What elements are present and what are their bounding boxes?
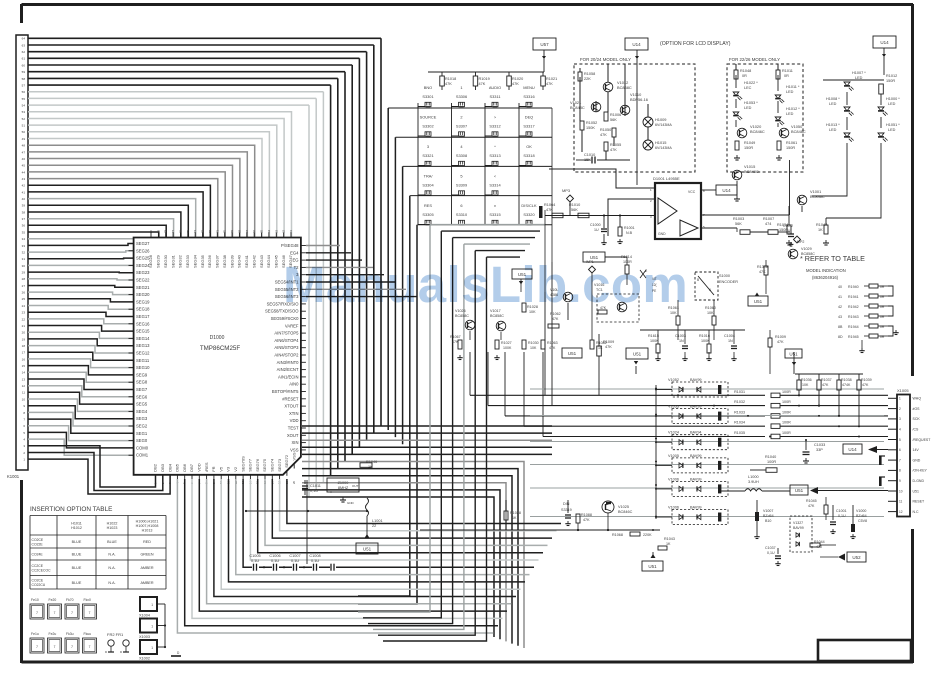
svg-text:H1022 *: H1022 * <box>744 81 758 85</box>
svg-text:5: 5 <box>460 174 462 179</box>
svg-text:H1012 *: H1012 * <box>786 107 800 111</box>
svg-text:13: 13 <box>22 377 26 381</box>
svg-text:BLUE: BLUE <box>72 540 82 544</box>
svg-text:0,1U: 0,1U <box>291 559 299 563</box>
svg-text:V1327: V1327 <box>793 521 803 525</box>
svg-text:R1009: R1009 <box>603 340 614 344</box>
svg-text:R1088: R1088 <box>581 513 592 517</box>
svg-text:H1000 *: H1000 * <box>886 97 900 101</box>
svg-text:7: 7 <box>71 645 73 649</box>
svg-text:VCC: VCC <box>688 190 696 194</box>
svg-text:R1945: R1945 <box>848 335 859 339</box>
svg-text:X1004: X1004 <box>139 614 150 618</box>
svg-text:LED: LED <box>855 76 863 80</box>
svg-text:11: 11 <box>22 391 25 395</box>
svg-text:R1009: R1009 <box>775 335 786 339</box>
svg-text:SEG3: SEG3 <box>136 416 148 421</box>
svg-text:100R: 100R <box>767 460 776 464</box>
svg-text:R1061: R1061 <box>786 141 797 145</box>
svg-text:19: 19 <box>22 337 26 341</box>
svg-text:SEG29: SEG29 <box>156 254 161 268</box>
svg-text:SEG73: SEG73 <box>277 458 282 472</box>
svg-text:74: 74 <box>193 229 197 233</box>
svg-text:S3320: S3320 <box>523 212 535 217</box>
svg-text:47K: 47K <box>445 82 452 86</box>
svg-text:H1023: H1023 <box>107 526 118 530</box>
svg-text:1U: 1U <box>786 229 791 233</box>
svg-text:SEG31: SEG31 <box>170 254 175 268</box>
svg-text:10: 10 <box>899 489 903 493</box>
svg-text:H1011 *: H1011 * <box>786 85 800 89</box>
svg-text:20: 20 <box>22 331 26 335</box>
svg-text:X1002: X1002 <box>139 657 150 661</box>
svg-text:1: 1 <box>151 603 153 607</box>
svg-text:SEG10: SEG10 <box>136 365 150 370</box>
svg-text:SCK: SCK <box>913 417 921 421</box>
svg-text:SEG76: SEG76 <box>255 458 260 472</box>
svg-text:R1006: R1006 <box>610 113 621 117</box>
svg-text:10K: 10K <box>530 346 537 350</box>
svg-text:/RES: /RES <box>204 462 209 472</box>
svg-text:BZd64: BZd64 <box>856 514 867 518</box>
svg-text:BLUE: BLUE <box>72 581 82 585</box>
svg-text:RES: RES <box>424 203 432 208</box>
svg-text:R1049: R1049 <box>744 141 755 145</box>
svg-text:SEG13: SEG13 <box>136 343 150 348</box>
svg-text:BDP56-16: BDP56-16 <box>630 97 648 102</box>
svg-text:76: 76 <box>179 229 183 233</box>
svg-text:Fe20: Fe20 <box>49 598 57 602</box>
svg-text:S3321: S3321 <box>422 153 433 158</box>
svg-text:VAREF: VAREF <box>285 323 299 328</box>
svg-text:64: 64 <box>267 229 271 233</box>
svg-text:BNO: BNO <box>424 85 432 90</box>
svg-text:AMBER: AMBER <box>140 581 153 585</box>
svg-text:Fe1u: Fe1u <box>31 632 39 636</box>
svg-text:20: 20 <box>292 480 296 484</box>
svg-text:C1011: C1011 <box>310 484 321 488</box>
svg-text:8B: 8B <box>838 325 843 329</box>
svg-text:25: 25 <box>22 297 26 301</box>
svg-text:(8636204916): (8636204916) <box>812 275 839 280</box>
svg-text:SEG33: SEG33 <box>185 254 190 268</box>
svg-text:CO2CE: CO2CE <box>32 579 44 583</box>
svg-text:U51: U51 <box>795 488 804 493</box>
svg-text:V3: V3 <box>226 466 231 472</box>
svg-text:R1016: R1016 <box>699 334 710 338</box>
svg-text:150R: 150R <box>744 146 753 150</box>
svg-text:SEG18: SEG18 <box>136 307 150 312</box>
svg-text:/REQUEST: /REQUEST <box>913 438 932 442</box>
svg-text:GREEN: GREEN <box>140 553 153 557</box>
svg-text:SEG77: SEG77 <box>248 458 253 472</box>
svg-text:TEST: TEST <box>288 426 299 431</box>
svg-text:1: 1 <box>899 397 901 401</box>
svg-text:C1037: C1037 <box>765 546 776 550</box>
svg-text:CO2CE: CO2CE <box>32 538 44 542</box>
svg-text:R1035: R1035 <box>734 431 745 435</box>
svg-text:Fe10: Fe10 <box>31 598 39 602</box>
svg-text:GND: GND <box>913 458 921 462</box>
svg-text:(OPTION FOR LCD DISPLAY): (OPTION FOR LCD DISPLAY) <box>660 41 731 47</box>
svg-text:Fkx0: Fkx0 <box>84 598 91 602</box>
svg-text:TMP86CM25F: TMP86CM25F <box>200 345 240 352</box>
svg-text:7: 7 <box>36 645 38 649</box>
svg-text:62: 62 <box>22 50 26 54</box>
svg-text:S3301: S3301 <box>422 94 433 99</box>
svg-text:U14: U14 <box>848 447 857 452</box>
svg-text:47K: 47K <box>610 148 617 152</box>
svg-text:16: 16 <box>22 357 26 361</box>
svg-text:^: ^ <box>494 144 496 149</box>
svg-text:11: 11 <box>899 500 903 504</box>
svg-text:SEG23: SEG23 <box>136 270 150 275</box>
svg-text:SEG38: SEG38 <box>222 254 227 268</box>
svg-text:S3317: S3317 <box>523 124 534 129</box>
svg-text:FR: FR <box>211 466 216 471</box>
svg-text:23: 23 <box>22 311 26 315</box>
svg-text:70: 70 <box>223 229 227 233</box>
svg-text:39: 39 <box>22 204 26 208</box>
svg-text:AIN6/STOP4: AIN6/STOP4 <box>274 338 299 343</box>
svg-text:61: 61 <box>22 57 26 61</box>
svg-text:GND: GND <box>347 501 355 505</box>
svg-text:#OS: #OS <box>913 407 921 411</box>
svg-text:80: 80 <box>149 229 153 233</box>
svg-text:#RESET: #RESET <box>282 396 299 401</box>
svg-text:SEG42: SEG42 <box>251 254 256 268</box>
svg-text:SEG14: SEG14 <box>136 336 150 341</box>
svg-text:ENCODER: ENCODER <box>719 280 738 284</box>
svg-text:47K: 47K <box>479 82 486 86</box>
svg-text:22: 22 <box>372 524 376 528</box>
svg-text:8: 8 <box>899 469 901 473</box>
svg-text:73: 73 <box>201 229 205 233</box>
svg-text:47K: 47K <box>605 345 612 349</box>
svg-text:N.A.: N.A. <box>108 566 115 570</box>
svg-text:MP3: MP3 <box>562 188 570 193</box>
svg-text:S3316: S3316 <box>523 94 534 99</box>
svg-text:14V: 14V <box>913 448 920 452</box>
svg-text:R1940: R1940 <box>848 285 859 289</box>
svg-text:47K: 47K <box>822 383 829 387</box>
svg-text:VDD: VDD <box>290 418 299 423</box>
svg-text:4: 4 <box>899 428 901 432</box>
svg-text:22K: 22K <box>584 77 591 81</box>
svg-text:BAV99: BAV99 <box>690 506 702 510</box>
svg-text:1K: 1K <box>512 516 517 520</box>
svg-text:1K: 1K <box>818 228 823 232</box>
svg-text:R1615: R1615 <box>648 334 659 338</box>
svg-text:U51: U51 <box>363 546 372 551</box>
svg-text:SEG16: SEG16 <box>136 321 150 326</box>
svg-text:61: 61 <box>289 229 293 233</box>
svg-text:S3305: S3305 <box>422 212 433 217</box>
svg-text:AMBER: AMBER <box>140 566 153 570</box>
svg-text:0,1U: 0,1U <box>251 559 259 563</box>
svg-text:72: 72 <box>208 229 212 233</box>
svg-text:U14: U14 <box>632 42 641 47</box>
svg-text:66: 66 <box>252 229 256 233</box>
svg-text:R1011: R1011 <box>782 69 793 73</box>
svg-text:BLUE: BLUE <box>72 553 82 557</box>
svg-text:V1000: V1000 <box>856 509 866 513</box>
svg-text:TRA/: TRA/ <box>424 174 434 179</box>
svg-text:S3315: S3315 <box>489 212 500 217</box>
svg-text:R1944: R1944 <box>848 325 859 329</box>
svg-text:R1048: R1048 <box>740 69 751 73</box>
svg-text:45: 45 <box>22 164 26 168</box>
svg-text:R1043: R1043 <box>664 537 675 541</box>
svg-text:BZd64: BZd64 <box>763 514 774 518</box>
svg-text:47K: 47K <box>759 270 766 274</box>
svg-text:COM1: COM1 <box>136 453 149 458</box>
svg-text:SOURCE: SOURCE <box>420 115 437 120</box>
svg-text:P/SEG48: P/SEG48 <box>281 243 299 248</box>
svg-text:12: 12 <box>22 384 26 388</box>
svg-text:VSS: VSS <box>291 452 296 460</box>
svg-text:DIN: DIN <box>563 502 570 506</box>
svg-text:AIN2/ECNT: AIN2/ECNT <box>277 367 299 372</box>
svg-text:LED: LED <box>888 102 896 106</box>
svg-text:BAV99: BAV99 <box>690 454 702 458</box>
svg-text:SEG35: SEG35 <box>200 254 205 268</box>
svg-text:SEG43: SEG43 <box>259 254 264 268</box>
svg-text:BSTOP/#INT5: BSTOP/#INT5 <box>272 389 299 394</box>
svg-text:LED: LED <box>786 90 794 94</box>
svg-text:* REFER TO TABLE: * REFER TO TABLE <box>800 254 865 263</box>
svg-text:75: 75 <box>186 229 190 233</box>
svg-text:DB5: DB5 <box>175 463 180 472</box>
svg-text:v: v <box>494 203 496 208</box>
svg-text:77: 77 <box>171 229 175 233</box>
svg-text:47K: 47K <box>512 82 519 86</box>
svg-text:56K: 56K <box>610 118 617 122</box>
svg-text:N.A.: N.A. <box>108 581 115 585</box>
svg-text:SEG17: SEG17 <box>136 314 150 319</box>
svg-text:R1055: R1055 <box>610 143 621 147</box>
svg-text:17: 17 <box>22 351 26 355</box>
svg-text:100R: 100R <box>782 410 791 414</box>
svg-text:DB6: DB6 <box>182 463 187 472</box>
svg-text:S3302: S3302 <box>422 124 433 129</box>
svg-text:29: 29 <box>22 271 26 275</box>
svg-text:AIN1/ECIN: AIN1/ECIN <box>278 374 298 379</box>
svg-text:47K: 47K <box>862 383 869 387</box>
svg-text:R1040: R1040 <box>765 455 776 459</box>
svg-text:D1000: D1000 <box>210 335 225 341</box>
svg-text:C1033: C1033 <box>814 443 825 447</box>
svg-text:1N: 1N <box>679 339 684 343</box>
svg-text:BC858C: BC858C <box>455 314 469 318</box>
svg-text:R1031: R1031 <box>734 390 745 394</box>
svg-text:Fk70: Fk70 <box>66 598 74 602</box>
svg-text:R1019: R1019 <box>479 77 490 81</box>
svg-text:BC848C: BC848C <box>791 129 806 134</box>
svg-text:5: 5 <box>899 438 901 442</box>
svg-text:X1003: X1003 <box>139 635 150 639</box>
svg-text:SEG6: SEG6 <box>136 394 148 399</box>
svg-text:K1001: K1001 <box>7 474 20 479</box>
svg-text:47K: 47K <box>549 346 556 350</box>
svg-text:R1050: R1050 <box>600 128 611 132</box>
svg-text:100K: 100K <box>503 346 512 350</box>
svg-text:BC846C: BC846C <box>618 510 633 514</box>
svg-text:H1007 *: H1007 * <box>852 71 866 75</box>
svg-text:6V/143MA: 6V/143MA <box>655 146 672 150</box>
svg-text:GND: GND <box>658 232 666 236</box>
svg-text:V2: V2 <box>233 466 238 472</box>
svg-text:SEG0: SEG0 <box>136 438 148 443</box>
svg-text:56: 56 <box>22 90 26 94</box>
svg-text:RED: RED <box>143 540 151 544</box>
svg-text:H1011: H1011 <box>71 522 82 526</box>
svg-text:10K: 10K <box>707 311 714 315</box>
svg-text:1: 1 <box>151 625 153 629</box>
svg-text:XOUT: XOUT <box>287 433 299 438</box>
svg-text:7: 7 <box>89 611 91 615</box>
svg-text:FR2 FR1: FR2 FR1 <box>107 632 124 637</box>
svg-text:S3319: S3319 <box>561 508 572 512</box>
svg-text:1: 1 <box>460 85 462 90</box>
svg-text:57: 57 <box>22 84 26 88</box>
svg-text:56K: 56K <box>735 222 742 226</box>
svg-text:XTOUT: XTOUT <box>284 404 299 409</box>
svg-text:LED: LED <box>888 128 896 132</box>
svg-text:SEG21: SEG21 <box>136 285 150 290</box>
svg-text:BC848C: BC848C <box>570 105 585 110</box>
svg-text:R1067: R1067 <box>450 335 461 339</box>
svg-text:SEG75: SEG75 <box>262 458 267 472</box>
svg-text:47K: 47K <box>546 82 553 86</box>
svg-text:DB3: DB3 <box>160 463 165 472</box>
svg-text:47K: 47K <box>583 518 590 522</box>
svg-text:150R: 150R <box>786 146 795 150</box>
svg-text:R1027: R1027 <box>501 341 512 345</box>
svg-text:R1010: R1010 <box>569 203 580 207</box>
svg-text:U51: U51 <box>633 351 642 356</box>
svg-text:48: 48 <box>22 144 26 148</box>
svg-text:65: 65 <box>260 229 264 233</box>
svg-text:SEG20: SEG20 <box>136 292 150 297</box>
svg-text:12: 12 <box>899 510 903 514</box>
svg-text:WHQ: WHQ <box>913 397 922 401</box>
svg-text:0,1U: 0,1U <box>310 489 318 493</box>
svg-text:43: 43 <box>22 177 26 181</box>
svg-text:C1003: C1003 <box>675 334 686 338</box>
svg-text:38: 38 <box>22 210 26 214</box>
svg-text:U57: U57 <box>540 42 549 47</box>
svg-text:V1025: V1025 <box>618 505 629 509</box>
svg-text:1K: 1K <box>666 542 671 546</box>
svg-text:R1020: R1020 <box>512 77 523 81</box>
svg-text:28: 28 <box>22 277 26 281</box>
svg-text:1K: 1K <box>598 346 603 350</box>
svg-text:BC846C: BC846C <box>750 129 765 134</box>
svg-text:1N: 1N <box>728 339 733 343</box>
svg-text:474: 474 <box>765 222 771 226</box>
svg-text:6: 6 <box>460 203 462 208</box>
svg-text:S3312: S3312 <box>489 124 500 129</box>
svg-text:33: 33 <box>22 244 26 248</box>
svg-text:R1941: R1941 <box>848 295 859 299</box>
svg-text:2: 2 <box>899 407 901 411</box>
svg-text:CO22E: CO22E <box>32 542 44 546</box>
svg-text:U14: U14 <box>880 40 889 45</box>
svg-text:AUDIO: AUDIO <box>489 85 501 90</box>
svg-text:SEG28: SEG28 <box>148 254 153 268</box>
svg-text:33P: 33P <box>816 448 823 452</box>
svg-text:R1039: R1039 <box>861 378 872 382</box>
svg-text:7: 7 <box>54 611 56 615</box>
svg-text:H1013 *: H1013 * <box>826 123 840 127</box>
svg-text:150K: 150K <box>586 126 595 130</box>
svg-text:2: 2 <box>460 115 462 120</box>
svg-text:OUT: OUT <box>352 484 359 488</box>
svg-text:71: 71 <box>215 229 219 233</box>
svg-text:100R: 100R <box>782 400 791 404</box>
svg-text:DB7: DB7 <box>189 463 194 472</box>
svg-text:SEG70S: SEG70S <box>240 456 245 472</box>
svg-text:LED: LED <box>744 106 752 110</box>
svg-text:B10: B10 <box>765 519 771 523</box>
svg-text:7: 7 <box>71 611 73 615</box>
svg-text:AIN5/STOP3: AIN5/STOP3 <box>274 345 299 350</box>
svg-text:18: 18 <box>22 344 26 348</box>
svg-text:Z1000: Z1000 <box>338 481 349 485</box>
svg-text:56K: 56K <box>571 208 578 212</box>
svg-text:VDD: VDD <box>197 463 202 472</box>
svg-text:40: 40 <box>838 285 842 289</box>
svg-text:44: 44 <box>22 170 26 174</box>
svg-text:50: 50 <box>22 130 26 134</box>
svg-text:47: 47 <box>22 150 26 154</box>
svg-text:31: 31 <box>22 257 26 261</box>
svg-text:SEG11: SEG11 <box>136 358 150 363</box>
svg-text:R1032: R1032 <box>734 400 745 404</box>
svg-text:C5V8: C5V8 <box>858 519 867 523</box>
svg-text:H1007,H1008: H1007,H1008 <box>136 524 159 528</box>
svg-text:0,1U: 0,1U <box>311 559 319 563</box>
svg-text:R1001: R1001 <box>624 226 635 230</box>
svg-text:3: 3 <box>427 144 429 149</box>
svg-text:R1942: R1942 <box>848 305 859 309</box>
svg-text:N.A.: N.A. <box>108 553 115 557</box>
svg-text:37: 37 <box>22 217 26 221</box>
svg-text:24: 24 <box>22 304 26 308</box>
svg-text:69: 69 <box>230 229 234 233</box>
svg-text:C1010: C1010 <box>584 153 595 157</box>
svg-text:0,1U: 0,1U <box>271 559 279 563</box>
svg-text:SEG27: SEG27 <box>136 241 150 246</box>
svg-text:SEG45: SEG45 <box>274 254 279 268</box>
svg-text:L1001: L1001 <box>372 519 383 523</box>
svg-text:RESET: RESET <box>913 500 926 504</box>
svg-text:COM0: COM0 <box>136 445 149 450</box>
svg-text:U51: U51 <box>754 299 763 304</box>
svg-text:H1012: H1012 <box>71 526 82 530</box>
svg-text:7: 7 <box>54 645 56 649</box>
svg-text:Fkuu: Fkuu <box>84 632 92 636</box>
svg-text:R1012: R1012 <box>886 74 897 78</box>
svg-text:32: 32 <box>22 251 26 255</box>
svg-text:150R: 150R <box>886 79 895 83</box>
svg-text:CC2CE: CC2CE <box>32 564 44 568</box>
svg-text:51: 51 <box>22 124 26 128</box>
svg-text:EG4: EG4 <box>290 250 299 255</box>
svg-text:62: 62 <box>282 229 286 233</box>
svg-text:SEG44: SEG44 <box>266 254 271 268</box>
